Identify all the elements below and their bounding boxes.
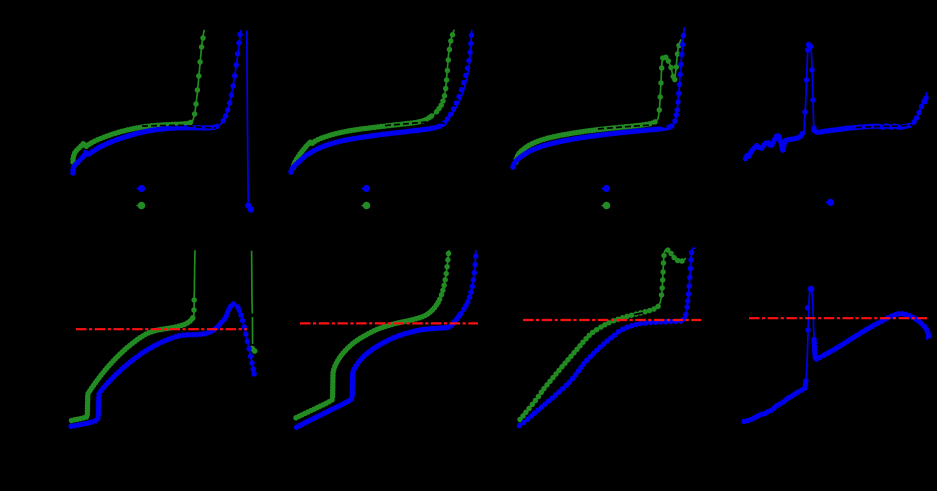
panel 2 black dashed fit line over plateau xyxy=(385,122,463,127)
panel 7 black dashed fit segment over green xyxy=(634,313,643,315)
panel 5 green curve rising off top xyxy=(69,251,197,423)
panel 4 right end tick xyxy=(926,92,928,104)
panel 5 green return line from top right xyxy=(249,251,257,354)
panel 2 legend blue marker xyxy=(362,185,371,192)
panel 2 green isotherm curve xyxy=(290,30,455,170)
panel 5 red dash-dot threshold line xyxy=(76,328,247,330)
panel 3 legend blue marker xyxy=(602,185,611,192)
panel 6 blue curve xyxy=(294,251,479,430)
panel 1 legend green marker xyxy=(137,202,146,210)
panel 1 green isotherm curve xyxy=(70,31,206,165)
panel 6 red dash-dot threshold line xyxy=(300,322,478,324)
panel 2 legend green marker xyxy=(362,202,371,210)
panel 1 legend blue marker xyxy=(137,185,146,192)
panel 1 black dashed fit line over plateau xyxy=(142,125,216,128)
panel 1 blue desorption return line xyxy=(245,31,254,213)
panel 2 blue isotherm curve xyxy=(288,30,474,174)
panel 8 blue curve with spike xyxy=(741,289,932,425)
panel 4 blue isotherm curve with spike xyxy=(743,42,929,162)
panel 7 blue curve xyxy=(517,248,695,428)
panel 4 legend blue marker xyxy=(826,199,835,206)
panel 6 green curve xyxy=(293,251,451,421)
panel 3 legend green marker xyxy=(602,202,611,210)
panel 3 blue isotherm curve xyxy=(510,28,686,170)
panel 8 right end tick xyxy=(926,329,928,340)
panel 7 green curve with hook xyxy=(517,247,685,422)
panel 8 spike top marker xyxy=(808,286,815,293)
panel 3 green isotherm curve with hook xyxy=(513,40,682,165)
panel 1 blue isotherm curve xyxy=(70,31,243,176)
panel 4 black dashed fit line over baseline xyxy=(856,125,912,128)
panel 8 red dash-dot threshold line xyxy=(749,317,927,319)
panel 7 red dash-dot threshold line xyxy=(523,319,701,321)
panel 5 blue curve with bump xyxy=(68,301,257,429)
panel 3 black dashed fit line over plateau xyxy=(598,125,668,129)
